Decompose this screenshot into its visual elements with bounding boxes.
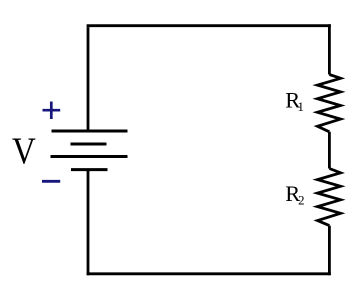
battery V: plate 4 (short, negative) bbox=[71, 168, 108, 171]
wire: bottom horizontal bbox=[87, 272, 331, 275]
wire: right vertical lower (R2 to bottom-right corner) bbox=[328, 226, 331, 276]
wire: top horizontal bbox=[87, 24, 331, 27]
wire: left vertical lower (bottom-left corner to battery bottom plate) bbox=[87, 170, 90, 276]
resistor R1 (zigzag) bbox=[317, 75, 340, 132]
svg-text:V: V bbox=[12, 131, 36, 173]
svg-text:2: 2 bbox=[298, 193, 304, 207]
wire: right vertical upper (top-right corner to R1) bbox=[328, 24, 331, 74]
wire: right vertical between R1 and R2 bbox=[328, 132, 331, 169]
battery V: plate 3 (long) bbox=[51, 155, 128, 158]
resistor R2 (zigzag) bbox=[317, 169, 340, 226]
wire: left vertical upper (battery top plate to top-left corner) bbox=[87, 27, 90, 131]
battery V: plate 1 (long, positive) bbox=[52, 130, 128, 133]
svg-text:1: 1 bbox=[298, 100, 304, 114]
plus sign (positive terminal) bbox=[43, 102, 61, 120]
minus sign (negative terminal) bbox=[42, 180, 60, 183]
battery V: plate 2 (short) bbox=[71, 143, 107, 146]
